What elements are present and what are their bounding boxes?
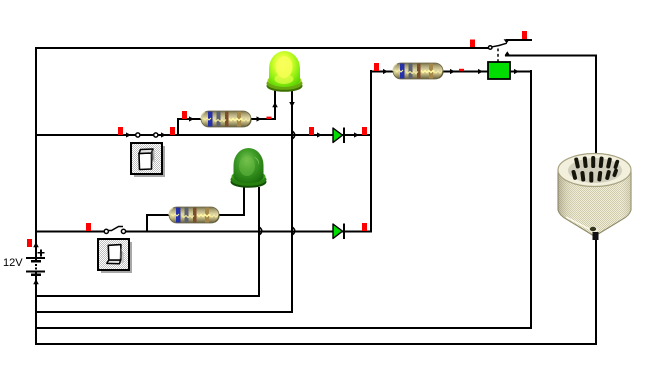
current arrow LED1 cathode (down) <box>289 102 295 107</box>
wire rail y311 <box>35 311 293 313</box>
wire R3 left <box>370 71 393 73</box>
wire row2 y231 right of switch <box>123 231 372 233</box>
wire rail y327 <box>35 327 532 329</box>
voltage bar after D1 <box>362 127 367 135</box>
wire rail y343 <box>35 343 597 345</box>
wire R2 left <box>146 214 169 216</box>
voltage bar before D1 <box>309 127 314 135</box>
voltage bar R1 branch <box>182 111 187 119</box>
voltage bar top rail <box>470 40 475 48</box>
wire R2 right <box>219 214 245 216</box>
wire LED1 cathode leg <box>291 90 293 313</box>
current arrow after D1 <box>354 132 359 137</box>
relay lever <box>492 43 507 47</box>
voltage bar before SW1 <box>118 127 123 135</box>
diode D1 <box>333 128 345 144</box>
wire R2 branch riser <box>146 215 148 232</box>
switch SW1 closed <box>131 133 165 177</box>
wire coil vertical x531 <box>530 70 532 329</box>
relay top contact arrowhead <box>504 39 510 43</box>
wire R3 right <box>443 71 488 73</box>
voltage bar before SW2 <box>86 223 91 231</box>
relay coil L1 <box>488 62 510 79</box>
current arrow coil out <box>514 69 519 74</box>
speaker LS1 <box>558 154 631 241</box>
wire LED2 anode leg <box>243 187 245 216</box>
resistor R2 <box>169 207 219 223</box>
current arrow after SW1 <box>161 132 166 137</box>
current arrow coil in <box>478 69 483 74</box>
voltage bar battery <box>27 239 32 247</box>
voltage bar after SW1 <box>170 127 175 135</box>
wire hop at 292/135 <box>292 131 295 139</box>
svg-text:12V: 12V <box>3 257 23 269</box>
voltage bar after D2 <box>362 223 367 231</box>
wire speaker top vertical <box>595 55 597 155</box>
current arrow R1 right <box>257 116 262 121</box>
voltage bar R3 <box>374 63 379 71</box>
battery B1 12V <box>3 249 45 276</box>
wire R1 right <box>251 118 276 120</box>
current arrow battery top <box>33 242 39 247</box>
voltage dash after R1 <box>267 117 272 119</box>
wire coil out <box>510 71 532 73</box>
wire R1 left <box>177 118 201 120</box>
LED D3 lit <box>267 51 303 92</box>
wire hop at 259/231 <box>259 227 262 235</box>
current arrow before SW1 <box>126 132 131 137</box>
wire row1 y135 <box>35 134 372 136</box>
wire rail y295 <box>35 295 260 297</box>
current arrow R1 left <box>189 116 194 121</box>
relay link dashed <box>497 49 499 63</box>
wire relay top contact <box>506 39 532 41</box>
diode D2 <box>333 224 345 240</box>
voltage dash after R3 <box>459 69 464 71</box>
wire row2 y231 left of switch <box>35 231 106 233</box>
current arrow R3 left <box>383 69 388 74</box>
wire R1 branch riser <box>177 119 179 135</box>
wire LED1 anode leg <box>274 90 276 120</box>
relay pivot <box>488 46 492 50</box>
wire LED2 cathode leg <box>258 187 260 297</box>
current arrow battery bottom <box>33 279 39 284</box>
switch SW2 open <box>98 227 132 274</box>
current arrow LED1 anode (up) <box>272 102 278 107</box>
current arrow before D1 <box>317 132 322 137</box>
wire speaker bottom vertical <box>595 240 597 345</box>
LED D4 unlit <box>231 148 267 188</box>
wire hop at 292/231 <box>292 227 295 235</box>
relay lower contact arrowhead <box>505 51 510 55</box>
voltage bar top contact <box>522 31 527 39</box>
wire left vertical <box>35 47 37 345</box>
current arrow R3 right <box>450 69 455 74</box>
resistor R1 <box>201 111 251 127</box>
resistor R3 <box>393 63 443 79</box>
wire relay lower contact <box>505 55 597 57</box>
wire top rail <box>35 47 489 49</box>
wire mid vertical x371 <box>370 70 372 232</box>
